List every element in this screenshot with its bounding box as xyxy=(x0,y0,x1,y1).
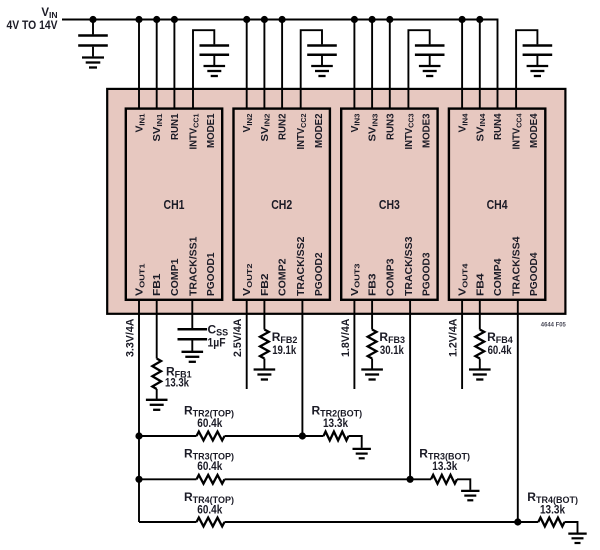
junction VIN4 xyxy=(459,16,466,23)
wire RTR4(BOT) to ground xyxy=(565,522,578,533)
wire TRACK/SS4 down xyxy=(517,300,519,522)
capacitor C3 (INTVCC3 bypass) xyxy=(415,46,445,55)
pin label RUN4 xyxy=(493,113,504,140)
svg-text:TRACK/SS3: TRACK/SS3 xyxy=(404,236,415,296)
wire RUN3 pin to bus xyxy=(389,20,391,109)
wire VOUT1 to tracking divider xyxy=(138,300,140,522)
pin label VOUT4 xyxy=(458,263,470,296)
pin label MODE4 xyxy=(529,113,540,148)
label RTR2(TOP) xyxy=(184,404,234,419)
resistor RFB1 xyxy=(152,359,161,390)
svg-text:1µF: 1µF xyxy=(208,336,226,350)
svg-text:13.3k: 13.3k xyxy=(323,416,348,430)
junction TRACK/SS3 xyxy=(407,476,414,483)
junction RUN2 xyxy=(279,16,286,23)
label RTR4(TOP) xyxy=(184,490,234,505)
junction VIN3 xyxy=(351,16,358,23)
wire track row 2 left xyxy=(139,435,197,437)
svg-text:TRACK/SS4: TRACK/SS4 xyxy=(512,236,523,296)
wire INTVCC4 loop xyxy=(516,30,537,108)
pin label COMP1 xyxy=(170,258,181,296)
svg-text:60.4k: 60.4k xyxy=(488,343,512,357)
wire C4 to ground xyxy=(536,56,538,65)
svg-text:CH2: CH2 xyxy=(271,198,292,212)
junction SVIN4 xyxy=(476,16,483,23)
pin label PGOOD2 xyxy=(314,252,325,296)
capacitor CIN1 junction xyxy=(89,16,96,23)
svg-text:13.3k: 13.3k xyxy=(432,459,457,473)
svg-text:13.3k: 13.3k xyxy=(540,502,565,516)
svg-text:MODE2: MODE2 xyxy=(314,113,325,148)
pin label COMP3 xyxy=(385,258,396,296)
wire VIN bus xyxy=(62,20,498,109)
wire VIN2 pin to bus xyxy=(246,20,248,109)
wire RFB4 to ground xyxy=(479,359,481,369)
svg-text:PGOOD2: PGOOD2 xyxy=(314,252,325,296)
svg-text:TRACK/SS2: TRACK/SS2 xyxy=(296,236,307,296)
wire TRACK/SS3 down xyxy=(409,300,411,480)
label RTR3(TOP) value xyxy=(197,459,222,473)
wire INTVCC2 loop xyxy=(301,30,322,108)
svg-text:2.5V/4A: 2.5V/4A xyxy=(232,318,244,357)
resistor RFB4 xyxy=(475,330,484,359)
svg-text:COMP1: COMP1 xyxy=(170,258,181,296)
wire FB4 xyxy=(479,300,481,330)
node VIN label xyxy=(41,7,57,20)
junction VIN1 xyxy=(135,16,142,23)
pin label VIN2 xyxy=(242,113,254,132)
ground RFB3 xyxy=(361,370,383,380)
label RTR2(BOT) value xyxy=(323,416,348,430)
note 4644 F05 xyxy=(541,322,566,329)
label RFB4 xyxy=(487,330,513,345)
wire SVIN4 pin to bus xyxy=(479,20,481,109)
label output 1.2V/4A xyxy=(448,318,460,357)
ground RTR2(BOT) xyxy=(353,449,371,458)
pin label PGOOD1 xyxy=(206,252,217,296)
svg-text:PGOOD3: PGOOD3 xyxy=(422,252,433,296)
wire RUN1 pin to bus xyxy=(173,20,175,109)
svg-text:MODE4: MODE4 xyxy=(529,113,540,148)
svg-text:30.1k: 30.1k xyxy=(380,343,404,357)
label RTR2(TOP) value xyxy=(197,416,222,430)
ground RTR4(BOT) xyxy=(568,534,586,543)
pin label FB2 xyxy=(260,273,271,296)
pin label MODE1 xyxy=(206,113,217,148)
pin label VIN4 xyxy=(458,113,470,133)
svg-text:FB2: FB2 xyxy=(260,273,271,296)
wire VOUT4 stub xyxy=(461,300,463,389)
capacitor CSS xyxy=(178,329,208,339)
label RTR4(TOP) value xyxy=(197,502,222,516)
wire track row 2 middle xyxy=(225,435,324,437)
node VIN range label xyxy=(7,18,58,32)
pin label SVIN2 xyxy=(260,114,272,142)
ground RFB2 xyxy=(254,370,276,380)
svg-text:CH4: CH4 xyxy=(487,198,508,212)
capacitor C2 (INTVCC2 bypass) xyxy=(307,46,337,55)
pin label COMP4 xyxy=(493,258,504,296)
wire RFB2 to ground xyxy=(263,359,265,369)
wire INTVCC3 loop xyxy=(408,30,429,108)
pin label INTVCC2 xyxy=(296,114,308,150)
pin label SVIN1 xyxy=(152,113,164,142)
junction SVIN1 xyxy=(153,16,160,23)
junction RUN3 xyxy=(386,16,393,23)
wire FB3 xyxy=(371,300,373,330)
label RTR4(BOT) xyxy=(527,490,578,505)
svg-text:RUN1: RUN1 xyxy=(170,113,181,140)
pin label TRACK/SS2 xyxy=(296,236,307,296)
IC channel CH1 box xyxy=(126,109,222,300)
pin label FB3 xyxy=(368,273,379,296)
ground C4 xyxy=(527,66,549,76)
label output 1.8V/4A xyxy=(340,318,352,357)
junction TRACK/SS2 xyxy=(299,432,306,439)
pin label VIN3 xyxy=(350,114,362,133)
svg-text:MODE1: MODE1 xyxy=(206,113,217,148)
junction TRACK/SS4 xyxy=(514,518,521,525)
label CSS value xyxy=(208,336,226,350)
label output 2.5V/4A xyxy=(232,318,244,357)
label RFB3 value xyxy=(380,343,404,357)
junction SVIN2 xyxy=(261,16,268,23)
resistor RFB2 xyxy=(260,330,269,359)
resistor RTR3(TOP) xyxy=(197,475,225,484)
resistor RFB3 xyxy=(368,330,377,359)
svg-text:60.4k: 60.4k xyxy=(197,502,222,516)
junction VOUT1/row3 xyxy=(135,476,142,483)
pin label TRACK/SS3 xyxy=(404,236,415,296)
wire INTVCC1 loop xyxy=(193,30,214,108)
pin label VOUT2 xyxy=(242,264,254,297)
ground CSS xyxy=(182,352,204,362)
junction RUN1 xyxy=(171,16,178,23)
wire VOUT2 stub xyxy=(246,300,248,389)
wire RTR2(BOT) to ground xyxy=(349,436,362,448)
svg-text:19.1k: 19.1k xyxy=(272,343,296,357)
svg-text:RUN4: RUN4 xyxy=(493,113,504,140)
pin label SVIN4 xyxy=(475,113,487,142)
svg-text:FB1: FB1 xyxy=(152,273,163,296)
wire FB2 xyxy=(263,300,265,330)
label RFB4 value xyxy=(488,343,512,357)
svg-text:1.2V/4A: 1.2V/4A xyxy=(448,318,460,357)
pin label COMP2 xyxy=(278,258,289,296)
svg-text:RUN3: RUN3 xyxy=(385,113,396,140)
wire SVIN3 pin to bus xyxy=(371,20,373,109)
label RFB3 xyxy=(379,330,405,345)
pin label INTVCC4 xyxy=(512,113,524,150)
pin label TRACK/SS1 xyxy=(189,236,200,296)
pin label FB4 xyxy=(475,273,486,296)
wire RFB3 to ground xyxy=(371,359,373,369)
svg-text:COMP4: COMP4 xyxy=(493,258,504,296)
wire VIN1 pin to bus xyxy=(138,20,140,109)
svg-text:COMP3: COMP3 xyxy=(385,258,396,296)
svg-text:CH3: CH3 xyxy=(379,198,400,212)
label CH1 xyxy=(164,198,185,212)
wire VIN3 pin to bus xyxy=(353,20,355,109)
capacitor C1 (INTVCC1 bypass) xyxy=(200,46,230,55)
junction VOUT1/row2 xyxy=(135,432,142,439)
label output 3.3V/4A xyxy=(125,318,137,357)
label RTR4(BOT) value xyxy=(540,502,565,516)
label RFB1 xyxy=(166,365,192,380)
ground RFB4 xyxy=(469,370,491,380)
IC U1 quad-output regulator outer box xyxy=(107,89,565,314)
capacitor CIN1 xyxy=(78,36,108,46)
pin label PGOOD3 xyxy=(422,252,433,296)
wire RFB1 to ground xyxy=(156,389,158,399)
resistor RTR2(BOT) xyxy=(324,432,349,441)
label RTR3(BOT) value xyxy=(432,459,457,473)
ground C3 xyxy=(419,66,441,76)
junction SVIN3 xyxy=(369,16,376,23)
wire SVIN2 pin to bus xyxy=(263,20,265,109)
svg-text:FB4: FB4 xyxy=(475,273,486,296)
wire track row 3 middle xyxy=(225,478,432,480)
label RTR2(BOT) xyxy=(312,404,363,419)
svg-text:PGOOD4: PGOOD4 xyxy=(529,252,540,296)
label RFB2 xyxy=(272,330,298,345)
wire CIN1 to ground xyxy=(92,47,94,57)
label CSS xyxy=(208,323,229,338)
pin label PGOOD4 xyxy=(529,252,540,296)
wire RUN2 pin to bus xyxy=(281,20,283,109)
pin label VIN1 xyxy=(135,113,147,133)
svg-text:60.4k: 60.4k xyxy=(197,459,222,473)
pin label SVIN3 xyxy=(368,114,380,142)
label RFB2 value xyxy=(272,343,296,357)
IC channel CH2 box xyxy=(234,109,330,300)
svg-text:RUN2: RUN2 xyxy=(278,113,289,140)
junction VIN2 xyxy=(243,16,250,23)
wire RTR3(BOT) to ground xyxy=(457,479,470,490)
svg-text:MODE3: MODE3 xyxy=(422,113,433,148)
svg-text:TRACK/SS1: TRACK/SS1 xyxy=(189,236,200,296)
label CH4 xyxy=(487,198,508,212)
pin label RUN2 xyxy=(278,113,289,140)
ground RTR3(BOT) xyxy=(461,491,479,500)
svg-text:PGOOD1: PGOOD1 xyxy=(206,252,217,296)
pin label INTVCC3 xyxy=(404,114,416,150)
svg-text:3.3V/4A: 3.3V/4A xyxy=(125,318,137,357)
svg-text:60.4k: 60.4k xyxy=(197,416,222,430)
ground RFB1 xyxy=(146,400,168,410)
IC channel CH3 box xyxy=(341,109,437,300)
resistor RTR4(TOP) xyxy=(197,518,225,527)
wire track row 3 left xyxy=(139,478,197,480)
label RTR3(BOT) xyxy=(419,446,470,461)
svg-text:13.3k: 13.3k xyxy=(165,375,189,389)
label CH2 xyxy=(271,198,292,212)
resistor RTR4(BOT) xyxy=(538,518,564,527)
resistor RTR3(BOT) xyxy=(431,475,457,484)
pin label RUN3 xyxy=(385,113,396,140)
svg-text:4V TO 14V: 4V TO 14V xyxy=(7,18,58,32)
svg-text:1.8V/4A: 1.8V/4A xyxy=(340,318,352,357)
pin label RUN1 xyxy=(170,113,181,140)
pin label VOUT3 xyxy=(350,263,362,296)
wire C1 to ground xyxy=(213,56,215,65)
pin label INTVCC1 xyxy=(189,113,201,150)
capacitor C4 (INTVCC4 bypass) xyxy=(523,46,553,55)
wire VOUT3 stub xyxy=(353,300,355,389)
wire TRACK/SS2 down xyxy=(301,300,303,436)
ground CIN1 xyxy=(82,58,104,68)
svg-text:CH1: CH1 xyxy=(164,198,185,212)
pin label FB1 xyxy=(152,273,163,296)
resistor RTR2(TOP) xyxy=(197,432,225,441)
ground C2 xyxy=(311,66,333,76)
pin label MODE3 xyxy=(422,113,433,148)
wire VIN4 pin to bus xyxy=(461,20,463,109)
wire FB1 xyxy=(156,300,158,359)
pin label VOUT1 xyxy=(135,263,147,296)
wire C2 to ground xyxy=(321,56,323,65)
label RTR3(TOP) xyxy=(184,446,234,461)
svg-text:COMP2: COMP2 xyxy=(278,258,289,296)
wire SVIN1 pin to bus xyxy=(156,20,158,109)
wire CIN1 stub xyxy=(92,20,94,35)
ground C1 xyxy=(204,66,226,76)
wire C3 to ground xyxy=(429,56,431,65)
wire CSS to ground xyxy=(191,341,193,351)
label RFB1 value xyxy=(165,375,189,389)
label CH3 xyxy=(379,198,400,212)
wire track row 4 middle xyxy=(225,521,539,523)
IC channel CH4 box xyxy=(449,109,545,300)
wire track row 4 left xyxy=(139,521,197,523)
pin label MODE2 xyxy=(314,113,325,148)
pin label TRACK/SS4 xyxy=(512,236,523,296)
wire RUN4 pin to bus end xyxy=(497,89,499,109)
svg-text:4644 F05: 4644 F05 xyxy=(541,322,566,329)
wire TRACK/SS1 xyxy=(191,300,193,328)
svg-text:FB3: FB3 xyxy=(368,273,379,296)
